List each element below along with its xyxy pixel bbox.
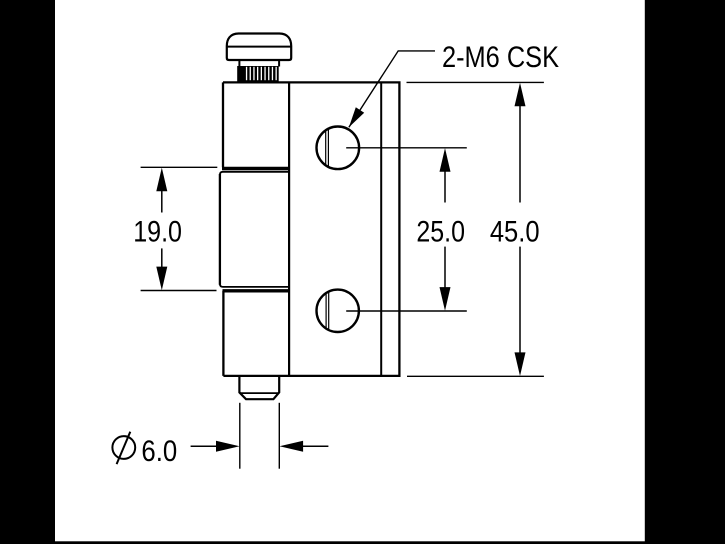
dim 19.0 extension lines	[141, 167, 218, 290]
left black border bar	[0, 0, 55, 544]
diameter symbol	[112, 432, 135, 464]
svg-text:45.0: 45.0	[490, 215, 540, 248]
pin neck	[239, 60, 279, 67]
hinge leaf plate outline	[223, 82, 399, 376]
knurled pin section	[237, 66, 279, 82]
svg-text:6.0: 6.0	[141, 435, 177, 468]
leader line 2-M6 CSK	[349, 51, 435, 127]
dim 25.0 line and arrows	[440, 148, 451, 311]
right black border bar	[645, 0, 725, 544]
bottom pin stub	[239, 376, 279, 399]
dim 45.0 extension lines	[407, 82, 544, 376]
dim 45.0 line and arrows	[515, 83, 526, 376]
bottom pin stub seam line	[239, 392, 279, 394]
bottom black border bar	[0, 541, 725, 544]
dim 6.0 line and arrows	[191, 441, 329, 452]
plate inner edge line	[380, 82, 382, 376]
bottom screw slot	[326, 292, 329, 329]
top screw hole	[317, 127, 360, 170]
dim 19.0 line and arrows	[156, 168, 167, 291]
svg-text:19.0: 19.0	[133, 216, 182, 249]
barrel-plate boundary line	[288, 82, 290, 376]
dim 6.0 extension lines	[240, 403, 279, 469]
bottom knuckle	[222, 291, 224, 376]
svg-text:2-M6 CSK: 2-M6 CSK	[442, 41, 559, 74]
top knuckle	[222, 82, 224, 167]
middle knuckle	[220, 172, 289, 287]
leader arrowhead	[349, 107, 364, 127]
middle knuckle left edge emphasis	[219, 174, 221, 285]
dim 25.0 extension lines	[346, 148, 467, 311]
pin cap seam line	[227, 46, 291, 48]
svg-text:25.0: 25.0	[416, 215, 465, 248]
top screw slot	[326, 129, 329, 167]
pin cap	[227, 34, 291, 61]
bottom screw hole	[317, 290, 359, 332]
bottom knuckle joint thick line	[223, 289, 290, 292]
top knuckle joint thick line	[222, 167, 289, 170]
